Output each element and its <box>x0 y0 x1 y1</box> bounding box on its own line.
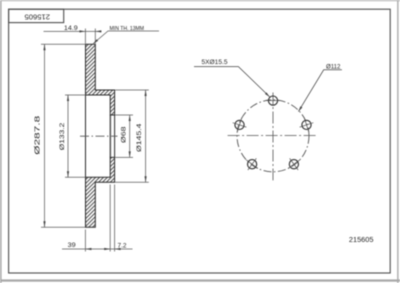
svg-text:215605: 215605 <box>349 237 374 244</box>
svg-text:14.9: 14.9 <box>64 25 78 32</box>
svg-text:Ø68: Ø68 <box>120 126 127 143</box>
svg-text:Ø133.2: Ø133.2 <box>59 122 66 150</box>
svg-text:7.2: 7.2 <box>118 242 127 249</box>
svg-text:39: 39 <box>68 242 76 249</box>
svg-text:MIN TH. 13MM: MIN TH. 13MM <box>110 26 145 32</box>
svg-text:Ø112: Ø112 <box>326 64 341 71</box>
svg-text:215605: 215605 <box>24 12 50 19</box>
svg-text:Ø145.4: Ø145.4 <box>136 123 143 152</box>
svg-text:5XØ15.5: 5XØ15.5 <box>202 59 229 66</box>
svg-text:Ø287.8: Ø287.8 <box>35 116 42 155</box>
